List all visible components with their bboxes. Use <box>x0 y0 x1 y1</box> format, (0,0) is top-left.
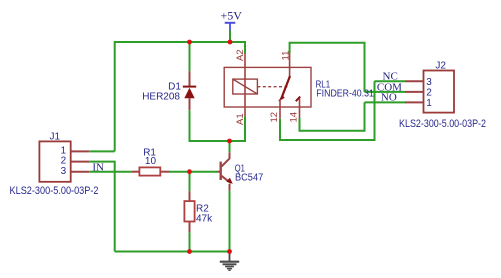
svg-text:KLS2-300-5.00-03P-2: KLS2-300-5.00-03P-2 <box>10 185 99 197</box>
relay pin 12 contact arrow <box>278 95 285 101</box>
net label NO <box>381 92 397 104</box>
node collector junction <box>227 139 232 144</box>
relay coil <box>233 79 258 94</box>
wire J1 pin3 IN to R1 <box>89 171 132 173</box>
svg-text:+5V: +5V <box>221 9 243 23</box>
wire COM to J2 pin2 <box>365 91 406 93</box>
relay RL1 box <box>224 67 311 107</box>
relay pin 14 <box>288 99 299 123</box>
net label NC <box>383 71 398 83</box>
net label COM <box>377 82 402 94</box>
node rail-D1 junction <box>187 40 192 45</box>
relay pin A2 <box>235 49 246 116</box>
svg-text:3: 3 <box>61 166 67 177</box>
wire NO to J2 pin1 <box>365 101 406 103</box>
wire NC to J2 pin3 <box>375 80 406 82</box>
svg-text:NO: NO <box>381 92 397 104</box>
wire ground rail bottom <box>115 251 230 253</box>
svg-text:BC547: BC547 <box>235 173 264 184</box>
svg-text:FINDER-40.31: FINDER-40.31 <box>316 88 374 99</box>
svg-text:3: 3 <box>426 77 432 88</box>
svg-text:1: 1 <box>426 98 432 109</box>
wire pin14 to NO <box>300 102 365 130</box>
node base junction <box>187 169 192 174</box>
wire J1 pin2 to ground rail <box>89 162 114 252</box>
wire R1 to Q1 base <box>170 171 218 173</box>
relay dashed link <box>257 86 288 88</box>
wire pin12 to NC <box>280 81 375 140</box>
svg-text:KLS2-300-5.00-03P-2: KLS2-300-5.00-03P-2 <box>399 118 486 130</box>
relay pin 12 <box>269 100 280 123</box>
svg-text:2: 2 <box>426 88 432 99</box>
wire D1 bottom to collector node <box>190 110 246 141</box>
wire emitter down <box>229 191 231 252</box>
relay pin 11 <box>280 51 291 77</box>
relay labels <box>316 79 375 99</box>
wire J1 pin1 to +5V rail <box>89 150 114 152</box>
svg-text:12: 12 <box>269 112 280 123</box>
wire R2 bottom to rail <box>189 232 191 251</box>
wire top +5V rail <box>115 42 245 151</box>
ground <box>220 252 239 271</box>
power +5V <box>221 9 243 31</box>
svg-text:14: 14 <box>288 112 299 123</box>
svg-text:47k: 47k <box>196 214 213 225</box>
wire pin11 to COM <box>290 43 365 92</box>
node R2-rail junction <box>187 249 192 254</box>
svg-text:10: 10 <box>145 156 157 167</box>
wire relay A1 down <box>244 116 246 141</box>
transistor Q1 <box>218 152 264 191</box>
node ground junction <box>227 249 232 254</box>
wire R2 top <box>189 172 191 192</box>
wire +5V stub <box>229 31 231 43</box>
svg-text:J1: J1 <box>50 132 61 143</box>
svg-text:IN: IN <box>92 162 104 174</box>
connector J1 <box>10 132 99 197</box>
diode D1 <box>142 71 196 110</box>
node rail-+5V junction <box>228 40 233 45</box>
svg-text:J2: J2 <box>435 61 446 72</box>
relay pin A1 label <box>235 113 246 125</box>
wire collector up <box>229 141 231 152</box>
relay pin 14 contact <box>296 97 300 102</box>
relay switch blade <box>281 76 290 99</box>
svg-text:HER208: HER208 <box>142 92 180 103</box>
resistor R1 <box>132 148 170 176</box>
resistor R2 <box>184 191 213 232</box>
net label IN <box>92 162 104 174</box>
svg-text:A2: A2 <box>235 49 246 61</box>
connector J2 <box>399 61 486 130</box>
wire D1 top <box>189 42 191 71</box>
